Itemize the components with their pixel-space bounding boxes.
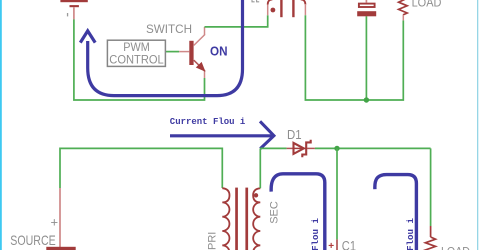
svg-text:CONTROL: CONTROL	[109, 55, 164, 67]
svg-text:PRI: PRI	[207, 232, 219, 250]
svg-text:D1: D1	[287, 128, 302, 142]
svg-text:PWM: PWM	[123, 42, 150, 54]
svg-text:C1: C1	[342, 239, 356, 250]
svg-text:ON: ON	[210, 44, 228, 58]
svg-text:LOAD: LOAD	[441, 245, 470, 250]
svg-text:Flou i: Flou i	[310, 218, 321, 250]
svg-text:Flou i: Flou i	[405, 218, 416, 250]
svg-text:SEC: SEC	[269, 201, 281, 224]
svg-text:+: +	[328, 241, 334, 250]
svg-text:SOURCE: SOURCE	[10, 232, 55, 248]
svg-text:+: +	[51, 214, 59, 229]
svg-text:Current Flou i: Current Flou i	[170, 116, 246, 127]
svg-text:LOAD: LOAD	[412, 0, 442, 9]
svg-text:SWITCH: SWITCH	[146, 22, 192, 36]
